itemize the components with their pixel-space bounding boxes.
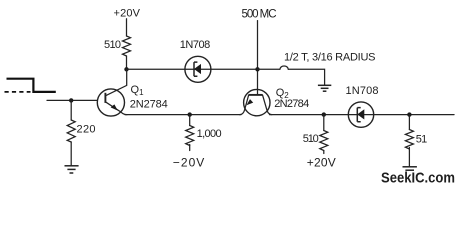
transistor Q2 2N2784 (240, 89, 272, 115)
transistor Q1 2N2784 (97, 69, 127, 116)
wire output rail (270, 114, 455, 116)
wire junction down to 51 (408, 115, 410, 130)
wire 500MC probe down to Q2 base (257, 21, 259, 95)
svg-text:2N2784: 2N2784 (130, 99, 168, 111)
ground (under 51) (403, 167, 417, 170)
svg-text:Q1: Q1 (131, 84, 145, 97)
wire diode to 500MC node (211, 68, 258, 70)
inductor 1/2 turn (280, 66, 288, 69)
wire top node to tunnel diode (127, 68, 186, 70)
resistor 1,000 (186, 126, 194, 146)
tunnel diode D2 1N708 (348, 102, 373, 127)
node 510 right junction (322, 112, 326, 116)
svg-text:510: 510 (104, 39, 121, 51)
node 51 junction (407, 112, 411, 116)
node input junction (69, 98, 73, 102)
svg-text:1N708: 1N708 (180, 39, 211, 51)
wire inductor to ground corner (288, 69, 324, 85)
input waveform (5, 79, 56, 92)
svg-text:510: 510 (303, 133, 319, 145)
svg-text:+20V: +20V (307, 156, 336, 170)
wire junction down to 220 (70, 100, 72, 120)
svg-text:+20V: +20V (114, 8, 141, 20)
svg-text:220: 220 (77, 124, 96, 136)
wire 510 to top node (126, 56, 128, 69)
node Q1 collector / 510 junction (124, 67, 128, 71)
resistor 510 (left) (123, 36, 131, 56)
svg-text:1N708: 1N708 (346, 85, 379, 97)
wire +20V lead (126, 19, 128, 36)
resistor 51 (405, 130, 413, 149)
wire node to inductor (258, 68, 280, 70)
svg-text:500 MC: 500 MC (242, 9, 277, 21)
resistor 510 (right) (320, 131, 328, 151)
svg-text:1,000: 1,000 (197, 128, 222, 140)
wire emitter rail Q1 to Q2 (125, 114, 241, 116)
node 500MC junction (255, 67, 259, 71)
wire junction down to 1000 (189, 115, 191, 126)
svg-text:SeekIC.com: SeekIC.com (381, 169, 455, 186)
wire 220 to ground (70, 142, 72, 166)
svg-text:51: 51 (416, 133, 428, 145)
node 1000 junction (188, 112, 192, 116)
ground (under 220) (65, 166, 79, 173)
wire 51 to ground (408, 148, 410, 167)
svg-text:1/2 T, 3/16 RADIUS: 1/2 T, 3/16 RADIUS (284, 52, 376, 64)
resistor 220 (67, 120, 75, 142)
wire input to Q1 base (47, 99, 97, 101)
wire 510 right lead bottom (323, 151, 325, 154)
tunnel diode D1 1N708 (185, 56, 211, 82)
wire 1000 lead bottom (189, 145, 191, 151)
wire junction down to 510 right (323, 115, 325, 131)
svg-text:2N2784: 2N2784 (274, 98, 309, 110)
ground (top right, inductor) (318, 85, 331, 91)
svg-text:−20V: −20V (173, 156, 205, 170)
